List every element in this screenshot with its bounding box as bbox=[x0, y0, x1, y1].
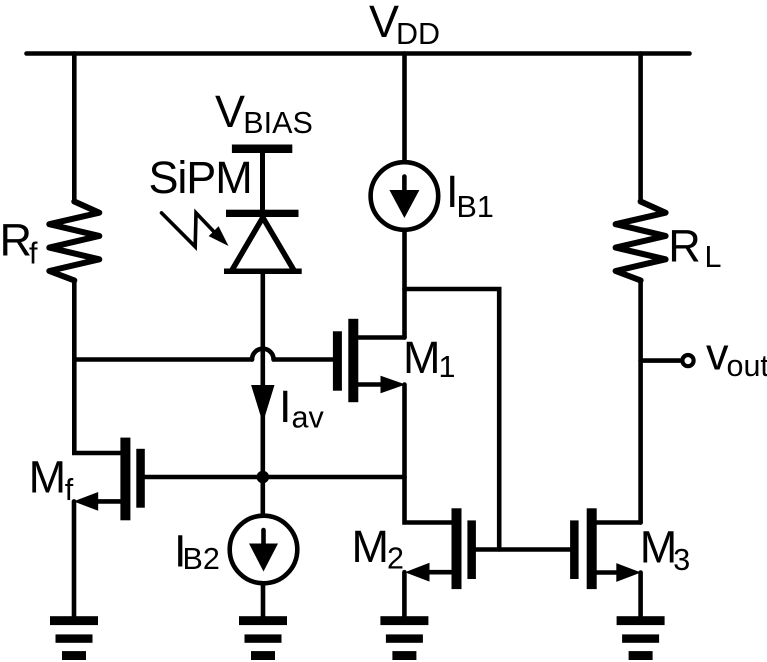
wire IB1 to M1 drain bbox=[402, 232, 407, 338]
transistor M3 bbox=[570, 508, 641, 589]
svg-text:DD: DD bbox=[396, 17, 440, 51]
photodiode SiPM triangle bbox=[231, 218, 294, 272]
svg-text:av: av bbox=[292, 401, 325, 435]
current arrow Iav bbox=[251, 385, 274, 423]
wire branch to current mirror gates bbox=[405, 289, 500, 550]
label Rf bbox=[0, 215, 38, 271]
wire gate feed right segment to M1 gate bbox=[274, 357, 333, 362]
wire vout tap bbox=[641, 358, 681, 363]
svg-text:R: R bbox=[0, 215, 32, 266]
label Iav bbox=[279, 381, 324, 435]
label M3 bbox=[640, 522, 691, 578]
label RL bbox=[668, 221, 721, 275]
svg-text:BIAS: BIAS bbox=[243, 106, 313, 140]
light arrow into SiPM bbox=[162, 213, 229, 247]
label vout bbox=[706, 328, 767, 383]
transistor Mf bbox=[74, 438, 145, 521]
wire Rf bottom down to Mf drain corner bbox=[74, 280, 120, 453]
terminal vout circle bbox=[682, 355, 693, 366]
label M2 bbox=[352, 521, 404, 575]
svg-text:M: M bbox=[352, 521, 390, 572]
wire hop over SiPM column bbox=[252, 349, 274, 360]
label VBIAS bbox=[215, 86, 313, 140]
label IB1 bbox=[446, 166, 494, 224]
wire left branch from rail to Rf bbox=[72, 54, 77, 202]
svg-text:L: L bbox=[705, 240, 722, 274]
ground M2 bbox=[380, 616, 428, 660]
node VDD label bbox=[369, 0, 440, 51]
label SiPM bbox=[149, 152, 252, 203]
junction node dot bbox=[257, 471, 270, 484]
svg-text:out: out bbox=[727, 349, 767, 383]
svg-text:V: V bbox=[369, 0, 399, 47]
resistor RL bbox=[616, 202, 666, 281]
wire SiPM anode down through junction to IB2 bbox=[260, 271, 265, 514]
ground Mf bbox=[50, 616, 98, 660]
wire M2 source to ground bbox=[402, 572, 407, 617]
svg-text:M: M bbox=[29, 451, 67, 502]
wire dot to Mf gate bbox=[145, 475, 263, 480]
svg-text:V: V bbox=[215, 86, 245, 137]
resistor Rf bbox=[49, 202, 99, 281]
svg-text:1: 1 bbox=[439, 350, 456, 384]
wire gate feed left segment (node A) bbox=[74, 357, 252, 362]
svg-text:SiPM: SiPM bbox=[149, 152, 252, 203]
wire VBIAS bar to diode cathode bbox=[260, 153, 265, 210]
wire Mf source to ground bbox=[72, 501, 77, 617]
svg-text:I: I bbox=[279, 381, 292, 432]
svg-text:2: 2 bbox=[387, 541, 404, 575]
svg-text:M: M bbox=[640, 522, 678, 573]
wire M2-M3 gate link bbox=[476, 547, 570, 552]
current source IB2 bbox=[230, 516, 298, 584]
wire rail to RL bbox=[638, 54, 643, 202]
ground M3 bbox=[617, 616, 665, 660]
svg-text:B1: B1 bbox=[457, 190, 494, 224]
wire rail to IB1 bbox=[402, 54, 407, 161]
label Mf bbox=[29, 451, 74, 507]
svg-text:3: 3 bbox=[673, 543, 690, 577]
supply VBIAS bar bbox=[232, 145, 292, 154]
current source IB1 bbox=[371, 162, 439, 230]
wire M1 source down to M2 drain bbox=[405, 385, 452, 523]
ground IB2 bbox=[239, 616, 287, 660]
svg-text:B2: B2 bbox=[183, 542, 220, 576]
label IB2 bbox=[174, 525, 220, 576]
svg-text:R: R bbox=[668, 221, 701, 272]
svg-text:M: M bbox=[403, 332, 441, 383]
transistor M1 bbox=[333, 319, 406, 402]
wire RL bottom to M3 drain bbox=[638, 280, 643, 522]
transistor M2 bbox=[405, 508, 476, 589]
wire M3 source to ground bbox=[638, 573, 643, 618]
wire VDD rail bbox=[27, 51, 690, 56]
photodiode SiPM cathode bar bbox=[226, 210, 299, 217]
svg-text:f: f bbox=[29, 237, 38, 271]
label M1 bbox=[403, 332, 455, 384]
wire dot to M1 source column bbox=[263, 475, 405, 480]
wire IB2 to ground bbox=[261, 586, 266, 618]
